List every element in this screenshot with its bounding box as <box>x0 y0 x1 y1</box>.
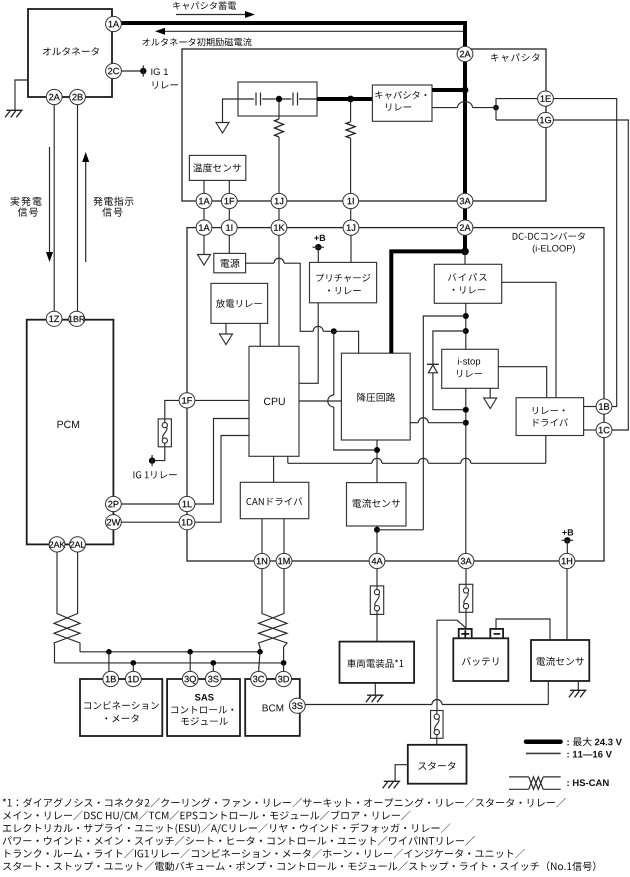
ground arrow (discharge relay) <box>220 334 233 345</box>
connector 2A <box>457 46 473 61</box>
node thick branch <box>461 248 469 256</box>
wire 1F to CPU <box>195 399 249 401</box>
label +B node (1H) <box>562 537 574 554</box>
wire i-stop relay down to 3A <box>465 388 467 553</box>
node bypass out B <box>463 328 469 334</box>
footnote line 5 <box>5 849 524 858</box>
connector 1D <box>179 515 195 530</box>
capacitor unit box <box>182 49 546 201</box>
node bus B to SAS <box>211 660 217 666</box>
wire 1J row2 to precharge relay <box>350 235 352 262</box>
label CAN driver <box>246 497 302 505</box>
connector 4A <box>369 553 385 568</box>
node power distribution <box>331 328 337 334</box>
label battery <box>462 657 498 666</box>
discharge relay box <box>211 283 268 323</box>
wire temp sensor to 1F <box>228 180 230 193</box>
label initial-field-current arrow <box>155 28 464 35</box>
alternator box <box>28 9 112 97</box>
wire PCM 2AL twisted pair B <box>54 552 80 663</box>
connector 1BR <box>69 311 85 326</box>
footnote line 6 <box>3 861 595 871</box>
connector 3A <box>457 193 473 208</box>
label precharge relay 2 <box>328 287 361 294</box>
wire bus A to 3Q <box>189 652 191 672</box>
wire 2C to IG1 relay <box>122 70 144 72</box>
wire PCM 2P to 1L <box>121 503 179 505</box>
label +B 1H <box>562 529 573 535</box>
wire current sensor to 4A <box>376 526 378 554</box>
connector 3C <box>251 671 267 686</box>
wire bus A to 1B <box>108 652 110 672</box>
wire 1E to 1B (right side) <box>553 99 617 407</box>
wire i-stop relay to ground arrow <box>489 388 491 398</box>
label i-ELOOP <box>533 245 575 254</box>
node bus B to BCM <box>281 660 287 666</box>
label i-stop relay 1 <box>458 358 480 367</box>
wire relay driver to 1B <box>584 406 597 408</box>
wire alternator to chassis ground <box>15 80 28 110</box>
label IG1 line1 <box>151 68 168 75</box>
label relay driver 2 <box>533 418 567 426</box>
label IG1 relay (fuse) <box>133 471 176 479</box>
wire alternator 2B to PCM 1BR <box>77 105 79 311</box>
connector 1K <box>271 220 287 235</box>
wire current sensor to ground <box>577 681 579 690</box>
label precharge relay 1 <box>316 274 370 283</box>
DC-DC converter (i-ELOOP) box <box>187 228 604 561</box>
battery box <box>453 638 508 681</box>
label bypass relay 2 <box>453 286 486 293</box>
node capacitor center tap <box>276 96 282 102</box>
legend thin line sample <box>526 752 561 754</box>
wire 1H to current sensor <box>566 569 568 640</box>
connector 1D <box>125 671 141 686</box>
connector 3Q <box>182 671 198 686</box>
wire 1K to CPU <box>278 235 280 346</box>
wire loads box to ground <box>374 683 376 695</box>
label relay driver 1 <box>533 407 565 415</box>
signal arrow down (actual generation) <box>46 147 53 262</box>
label SAS <box>195 694 214 701</box>
connector 1L <box>179 496 195 511</box>
node thermistor tap 1 <box>347 96 354 103</box>
connector 1J <box>271 193 287 208</box>
connector 2P <box>106 496 122 511</box>
label actual generation signal 1 <box>11 197 42 206</box>
label +B (precharge) <box>313 244 325 262</box>
connector 1M <box>276 553 292 568</box>
node diode anode <box>463 407 469 413</box>
connector 1N <box>254 553 270 568</box>
label capacitor unit <box>491 53 539 62</box>
SAS control module box <box>167 679 240 736</box>
relay driver box <box>516 398 584 436</box>
ground (current sensor) <box>569 690 587 697</box>
node 1E/1G split <box>493 105 499 111</box>
wire capacitor relay output to 1E/1G <box>432 102 496 108</box>
wire fuse to battery plus <box>465 612 467 630</box>
connector 1H <box>559 553 575 568</box>
node bus B to meter <box>131 660 137 666</box>
node bus A to SAS <box>187 649 193 655</box>
wire CPU control bus L1 <box>288 456 546 463</box>
fuse F3 (starter) <box>431 711 444 739</box>
legend max label <box>573 737 592 746</box>
battery minus terminal <box>490 629 503 639</box>
label bypass relay 1 <box>448 273 487 281</box>
connector 1A <box>106 16 122 31</box>
vehicle electrical loads box <box>340 642 415 683</box>
wire bypass relay to relay driver <box>502 282 556 397</box>
wire battery plus to starter branch <box>437 620 466 710</box>
wire battery minus to current sensor <box>496 619 550 640</box>
wire CAN driver to 1M <box>283 519 285 554</box>
wire precharge relay to CPU <box>299 303 318 384</box>
wire power supply to buck circuit route <box>246 258 301 325</box>
legend max value <box>595 739 622 746</box>
wire capacitor module to ground arrow <box>223 99 239 123</box>
PCM box <box>27 320 114 545</box>
wire 1F to IG1 relay fuse <box>165 400 180 419</box>
wire power route hop to node <box>300 325 334 331</box>
wire bus B to 3D <box>283 663 285 672</box>
fuse IG1 relay <box>158 419 171 447</box>
wire bypass relay to i-stop relay <box>465 303 467 349</box>
capacitor C1 plates <box>256 93 261 106</box>
fuse F1 (electrical loads) <box>370 586 383 615</box>
label IG1 line2 <box>153 81 178 89</box>
wire 1I row1 to 1J row2 <box>350 209 352 221</box>
label alternator initial field current <box>142 38 251 47</box>
connector 1G <box>538 112 554 127</box>
ground (vehicle loads) <box>366 695 384 702</box>
wire CAN driver to 1N <box>261 519 263 554</box>
label i-stop relay 2 <box>457 370 482 378</box>
wire 4A to fuse <box>376 569 378 586</box>
ground arrow (1A internal) <box>198 255 211 266</box>
label temperature sensor <box>193 163 241 172</box>
connector 2AK <box>49 537 65 552</box>
wire thick capacitor module to relay <box>317 97 372 101</box>
label current sensor battery <box>536 657 583 666</box>
wire BCM 3S to starter line <box>305 700 548 705</box>
wire buck circuit to current sensor <box>376 440 378 483</box>
temperature sensor box <box>189 155 245 180</box>
wire 1I row2 to power supply box <box>228 235 230 253</box>
node thick junction at relay <box>462 87 469 94</box>
wire PCM 2W to 1D <box>121 521 179 523</box>
i-stop relay box <box>442 349 499 388</box>
connector 3S <box>289 698 305 713</box>
wire alternator 2A to PCM 1Z <box>53 105 55 311</box>
battery plus terminal <box>459 629 472 639</box>
wire bus A to 3C <box>259 652 260 672</box>
node bus A to meter <box>106 649 112 655</box>
wire 1A row1 to 1A row2 <box>203 209 205 221</box>
label BCM <box>263 704 284 711</box>
legend 11-16V <box>567 751 611 758</box>
ground arrow (capacitor module) <box>216 123 229 134</box>
connector 1C <box>596 422 612 437</box>
legend thick line sample <box>526 739 561 744</box>
connector 3D <box>276 671 292 686</box>
connector 1B <box>103 671 119 686</box>
label capacitor charging <box>173 1 236 10</box>
wire IG1 fuse to terminal <box>152 447 165 461</box>
footnote line 4 <box>3 836 475 845</box>
connector 1A <box>196 220 212 235</box>
node buck-current sensor <box>374 447 380 453</box>
signal arrow up (generation command) <box>82 152 89 262</box>
ground (alternator chassis) <box>5 110 23 117</box>
wire relay driver to CPU bus <box>545 436 547 464</box>
buck circuit box (KOATSU) <box>341 353 410 440</box>
wire diode to node <box>433 373 466 410</box>
label power supply <box>221 259 240 268</box>
connector 1I <box>221 220 237 235</box>
wire CAN bus A <box>80 651 260 653</box>
wire main branch to bypass relay <box>464 251 466 264</box>
resistor R2 (temp sense) <box>346 102 355 194</box>
fuse F2 (battery) <box>459 584 473 612</box>
wire bypass node A to current node <box>423 316 466 530</box>
node bypass out A <box>463 313 469 319</box>
connector 1Z <box>46 311 62 326</box>
wire 1D to CPU <box>195 436 249 523</box>
wire starter to ground <box>395 765 408 782</box>
wire PCM 2AK twisted pair A <box>54 552 80 652</box>
diode D1 <box>427 364 439 373</box>
legend HS-CAN <box>567 779 608 786</box>
wire node down to current sense node <box>328 331 377 450</box>
label capacitor relay 2 <box>386 103 411 110</box>
wire node to buck circuit top <box>334 331 359 353</box>
label starter <box>418 762 455 770</box>
wire thick capacitor relay to main line <box>432 88 465 92</box>
current sensor box (battery) <box>531 640 589 681</box>
label CPU <box>264 398 285 405</box>
wire bypass node B via diode branch <box>433 331 466 364</box>
label PCM <box>57 421 79 428</box>
connector 2C <box>106 63 122 78</box>
combination meter box <box>80 679 162 736</box>
connector 2AL <box>70 537 86 552</box>
connector 1F <box>179 393 195 408</box>
footnote line 3 <box>3 823 451 834</box>
CAN driver box <box>240 482 308 518</box>
connector 1E <box>538 91 554 106</box>
label SAS control module 2 <box>181 717 227 725</box>
wire CAN bus B <box>55 662 284 664</box>
connector 3A <box>458 553 474 568</box>
connector 1I <box>343 193 359 208</box>
node IG1 relay terminal 2 <box>149 455 155 466</box>
label capacitor relay 1 <box>375 91 426 99</box>
precharge relay box <box>310 262 377 302</box>
capacitor relay box <box>372 85 432 121</box>
BCM box <box>245 679 300 736</box>
wire discharge relay to ground arrow <box>225 323 227 334</box>
current sensor box (internal) <box>347 483 407 526</box>
label combination meter 2 <box>105 714 138 722</box>
label SAS control module 1 <box>171 706 233 714</box>
capacitor C2 plates <box>293 93 298 106</box>
wire temp sensor to 1A <box>203 180 205 193</box>
wire relay driver to 1C <box>584 429 597 431</box>
wire current sensor to CAN/BCM line <box>547 681 549 705</box>
label discharge relay <box>216 299 262 308</box>
connector 2W <box>106 515 122 530</box>
power supply box (DENGEN) <box>214 253 246 272</box>
connector 2A <box>457 220 473 235</box>
connector 1B <box>596 399 612 414</box>
wire 1L to CPU <box>195 419 249 505</box>
label current sensor internal <box>353 499 400 508</box>
starter box <box>408 745 467 784</box>
wire discharge relay to CPU <box>259 323 261 346</box>
wire 1A row2 to ground arrow <box>203 235 205 255</box>
wire 1G to 1C (right side) <box>553 120 628 430</box>
wire 3A to fuse <box>465 569 467 585</box>
node current sensor tap <box>374 527 380 533</box>
wire thick main to buck circuit <box>391 251 465 353</box>
connector 1A <box>196 193 212 208</box>
label capacitor-charge arrow <box>176 11 255 18</box>
capacitor inner module box <box>238 82 317 116</box>
wire capacitor internal left <box>238 98 317 100</box>
legend HS-CAN sample <box>509 777 561 789</box>
wire buck circuit to node <box>410 418 466 423</box>
wire split bracket to 1E and 1G <box>496 99 538 120</box>
node IG1 relay terminal <box>140 65 146 76</box>
label alternator <box>43 47 99 55</box>
ground arrow (i-stop relay) <box>484 398 497 409</box>
wire DC-DC 1M twisted pair B <box>259 569 288 652</box>
wire 1F to 1I row2 <box>228 209 230 221</box>
footnote line 1 <box>3 798 566 807</box>
label DC-DC converter <box>513 232 585 240</box>
connector 2A <box>46 89 62 104</box>
connector 1F <box>221 193 237 208</box>
label generation command signal 2 <box>102 207 122 216</box>
CPU box <box>249 346 299 456</box>
node bus A to BCM <box>257 649 263 655</box>
label buck circuit <box>357 393 395 402</box>
label vehicle electrical loads <box>347 659 403 668</box>
connector 3S <box>205 671 221 686</box>
wire DC-DC 1N twisted pair A <box>259 569 288 663</box>
bypass relay box <box>434 264 501 303</box>
connector 2B <box>70 89 86 104</box>
wire CPU to CAN driver <box>273 456 275 482</box>
wire CPU to buck circuit <box>299 400 341 402</box>
node buck out <box>463 420 469 426</box>
wire 1J row1 to 1K <box>278 209 280 221</box>
wire tap to bypass branch <box>377 529 423 531</box>
legend max colon <box>567 741 568 746</box>
wire bus B to 3S <box>212 663 214 672</box>
connector 1J <box>343 220 359 235</box>
label combination meter 1 <box>84 701 159 709</box>
wire thick capacitor charge line 1A to 2A/3A <box>122 23 466 251</box>
label actual generation signal 2 <box>18 207 38 216</box>
resistor R1 (temp sense) <box>275 101 284 194</box>
wire bus B to 1D <box>132 663 134 672</box>
wire fuse to vehicle loads box <box>376 614 378 641</box>
label generation command signal 1 <box>93 197 133 206</box>
label +B precharge <box>314 235 325 241</box>
wire fuse to starter <box>436 738 438 745</box>
wire i-stop relay to relay driver <box>498 367 546 398</box>
ground (starter) <box>383 781 401 788</box>
footnote line 2 <box>3 811 411 822</box>
